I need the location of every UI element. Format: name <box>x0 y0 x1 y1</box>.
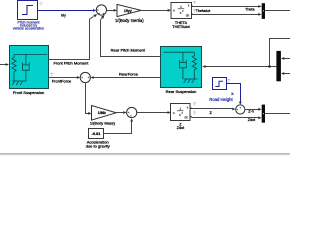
wire Front Pitch Moment <box>49 19 90 59</box>
svg-text:1: 1 <box>179 107 181 111</box>
svg-text:-9.81: -9.81 <box>92 132 101 136</box>
mux M1 <box>262 3 265 19</box>
badge on road height output <box>227 79 230 82</box>
svg-text:FrontForce: FrontForce <box>52 79 72 84</box>
svg-text:Front Suspension: Front Suspension <box>13 90 44 95</box>
svg-text:1/(Body Inertia): 1/(Body Inertia) <box>115 18 144 23</box>
svg-text:Rear Suspension: Rear Suspension <box>166 89 197 94</box>
label: Pitch moment induced by vehicle acceleration <box>13 20 45 30</box>
Rear Suspension subsystem <box>161 47 202 88</box>
sum S2 (forces) <box>80 72 90 82</box>
wire gain to integrator <box>141 10 168 12</box>
wire M2 output to Rear Suspension input <box>205 66 276 68</box>
wire FrontForce <box>49 77 77 79</box>
svg-text:due to gravity: due to gravity <box>86 143 110 148</box>
svg-text:RearForce: RearForce <box>119 71 139 76</box>
sum S1 (pitch moments) <box>96 5 106 15</box>
window bottom border <box>0 153 290 154</box>
svg-text:dx: dx <box>186 13 190 17</box>
wire mux M3 output <box>265 113 290 115</box>
svg-text:dx: dx <box>185 116 189 120</box>
svg-text:1/(Body Mass): 1/(Body Mass) <box>90 121 116 126</box>
wire gain to S3 <box>116 112 123 114</box>
wire Rear Pitch Moment <box>101 20 161 57</box>
mux M3 <box>262 105 265 123</box>
svg-text:1/Mb: 1/Mb <box>98 111 106 115</box>
svg-text:Front Pitch Moment: Front Pitch Moment <box>53 60 89 65</box>
wire My <box>38 10 94 12</box>
sum S3 (gravity) <box>127 107 137 117</box>
wire -9.81 to S3 <box>104 121 132 133</box>
wire Theta (top output to mux) <box>193 6 259 8</box>
svg-text:Road Height: Road Height <box>209 97 233 102</box>
wire mux M1 output <box>265 10 290 12</box>
step source: Road Height <box>213 78 227 90</box>
badges on integrator Z outputs <box>193 103 196 115</box>
wire Thetadot (bottom output to mux) <box>193 14 259 16</box>
svg-text:Zdot: Zdot <box>248 118 255 122</box>
svg-text:Zdot: Zdot <box>177 126 186 130</box>
wire S4 to mux M3 <box>245 109 259 111</box>
sum S4 (Z-h) <box>236 105 245 114</box>
gain 1/Mb <box>92 106 117 121</box>
badge on step block output <box>40 3 43 6</box>
wire S3 to integrator Z <box>137 112 168 114</box>
svg-text:1/Iyy: 1/Iyy <box>124 9 132 13</box>
svg-text:u: u <box>173 8 175 12</box>
integrator THETA THETAdot <box>171 3 193 19</box>
badges on integrator outputs <box>193 1 196 12</box>
svg-text:vehicle acceleration: vehicle acceleration <box>13 26 45 30</box>
svg-text:Theta: Theta <box>245 8 255 12</box>
wire h (road height to S4) <box>227 84 241 102</box>
svg-text:Z-h: Z-h <box>248 110 254 114</box>
wire input to front suspension <box>0 64 6 66</box>
constant -9.81 <box>89 129 104 139</box>
wire branch up to right edge <box>270 39 291 67</box>
integrator Z Zdot <box>171 104 192 121</box>
wires into M2 from right <box>284 58 290 60</box>
wire S2 output down to gain 1/Mb <box>86 83 89 114</box>
wire Zdot (bottom output to mux M3) <box>192 117 259 119</box>
wire RearForce <box>94 77 161 79</box>
svg-text:THETAdot: THETAdot <box>172 25 190 29</box>
step source: Pitch moment block <box>18 1 38 20</box>
flipped mux M2 <box>276 51 281 81</box>
badge on FrontForce <box>50 73 53 76</box>
svg-text:Thetadot: Thetadot <box>196 9 211 13</box>
wire S1 to gain <box>107 10 115 12</box>
svg-text:1: 1 <box>180 5 182 9</box>
svg-text:u: u <box>173 111 175 115</box>
wire Z (top output to S4) <box>192 108 233 110</box>
gain 1/Iyy <box>117 4 141 16</box>
Front Suspension subsystem <box>10 46 49 89</box>
svg-text:Rear Pitch Moment: Rear Pitch Moment <box>111 48 146 53</box>
junction node <box>268 65 270 67</box>
